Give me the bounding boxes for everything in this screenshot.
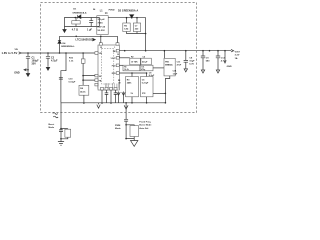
ferrite bead FB1 box bbox=[163, 51, 165, 59]
svg-text:10 TDK: 10 TDK bbox=[131, 62, 138, 64]
labels right of FB1 bbox=[173, 61, 182, 75]
svg-text:BMB2A: BMB2A bbox=[165, 64, 173, 67]
node junction R4 branch bbox=[82, 52, 84, 54]
wire FB1 bottom to bus bbox=[165, 76, 169, 103]
node junction D4 branch bbox=[59, 52, 61, 54]
pwm mode switch (bottom middle) bbox=[125, 103, 127, 120]
resistor R2 box bbox=[119, 57, 130, 59]
capacitor C3 bbox=[89, 18, 93, 27]
svg-text:1%: 1% bbox=[131, 93, 134, 95]
wire PVDD top rail bbox=[108, 18, 145, 34]
capacitor C2 bbox=[46, 53, 50, 67]
inductor L1 box bbox=[97, 16, 108, 35]
svg-text:GND: GND bbox=[14, 72, 20, 75]
terminal arrow VOUT bbox=[231, 50, 234, 52]
svg-text:0.01µF: 0.01µF bbox=[69, 82, 77, 84]
wire vertical to upper rail bbox=[59, 36, 61, 53]
svg-text:28: 28 bbox=[117, 54, 119, 56]
svg-text:SW: SW bbox=[113, 51, 116, 53]
svg-text:Mode: Mode bbox=[49, 127, 55, 129]
capacitor C7 bbox=[136, 18, 138, 23]
arrow stubs to bus bbox=[117, 92, 120, 104]
resistor box branch bbox=[61, 129, 68, 139]
terminal arrow VIN bbox=[19, 52, 21, 54]
node junction C2 bbox=[47, 52, 49, 54]
pin boxes bottom bbox=[101, 87, 104, 90]
pin boxes right bbox=[116, 49, 119, 52]
svg-text:Mode: Mode bbox=[115, 128, 121, 130]
ground under C1 bbox=[26, 70, 29, 77]
svg-text:Burst Mode: Burst Mode bbox=[139, 124, 152, 127]
IC U1 body bbox=[98, 45, 119, 90]
diode D1 on top edge bbox=[78, 15, 81, 19]
resistor R10 branch bbox=[61, 53, 66, 103]
svg-text:45.3k: 45.3k bbox=[80, 90, 86, 93]
svg-text:1 µF: 1 µF bbox=[87, 28, 93, 31]
svg-text:Fixed Freq.: Fixed Freq. bbox=[139, 121, 151, 124]
wire output rail bbox=[119, 50, 231, 52]
svg-text:GND: GND bbox=[227, 66, 232, 68]
arrow on wire bbox=[124, 105, 128, 109]
resistor R6 bbox=[126, 18, 128, 23]
ground triangle bottom middle bbox=[131, 139, 138, 147]
svg-text:C13: C13 bbox=[177, 61, 181, 63]
svg-text:PVDD: PVDD bbox=[109, 9, 115, 11]
svg-text:3.3 µH: 3.3 µH bbox=[98, 19, 105, 21]
label U1 part number bbox=[76, 39, 93, 42]
node junction C1 bbox=[27, 52, 29, 54]
capacitor C12 bbox=[217, 50, 219, 52]
ground bus wire bbox=[61, 102, 165, 104]
ground under C9 bbox=[201, 70, 204, 73]
svg-text:D2 GREEN5DA-A: D2 GREEN5DA-A bbox=[118, 9, 139, 12]
svg-text:47nF: 47nF bbox=[177, 63, 182, 66]
svg-text:PWM: PWM bbox=[115, 125, 120, 127]
svg-text:25: 25 bbox=[100, 47, 102, 49]
resistor box branch bbox=[126, 125, 134, 139]
svg-text:0.21µF: 0.21µF bbox=[142, 83, 149, 85]
svg-text:4.7 Ω: 4.7 Ω bbox=[72, 28, 78, 31]
node junction GND stub bbox=[27, 69, 29, 71]
ground bottom left bbox=[58, 142, 64, 146]
burst mode jumper (bottom left) bbox=[60, 103, 62, 130]
ground arrow under U1 bbox=[97, 103, 100, 108]
capacitor C5 box bbox=[141, 77, 154, 97]
node junction R10 branch bbox=[65, 52, 67, 54]
diode D4 bbox=[58, 41, 61, 44]
resistor R5 / capacitor C11 box bbox=[119, 64, 123, 66]
svg-text:470p: 470p bbox=[141, 68, 145, 71]
snubber loop box top-left bbox=[65, 18, 100, 27]
svg-text:4.7µF: 4.7µF bbox=[51, 60, 58, 63]
svg-text:10.0k: 10.0k bbox=[124, 69, 129, 71]
svg-text:6.3V: 6.3V bbox=[189, 64, 194, 66]
capacitor C1 bbox=[26, 53, 30, 70]
capacitor in branch bbox=[124, 119, 128, 138]
pin name ticks inside U1 bottom bbox=[98, 83, 118, 88]
pin box left VIN bbox=[95, 52, 98, 55]
node VIN input label bbox=[2, 49, 19, 55]
svg-text:VOUT: VOUT bbox=[235, 51, 241, 53]
svg-text:8.2µF: 8.2µF bbox=[149, 75, 155, 77]
capacitor C9 bbox=[202, 50, 204, 52]
svg-text:Burst: Burst bbox=[49, 123, 55, 126]
pin boxes left lower bbox=[95, 74, 98, 77]
svg-text:10µF: 10µF bbox=[189, 61, 195, 63]
capacitor C8 bbox=[185, 50, 187, 52]
capacitor in branch bbox=[59, 130, 63, 142]
svg-text:XLF-50: XLF-50 bbox=[98, 26, 106, 28]
node junction upper rail bbox=[100, 36, 102, 38]
squiggle marks bbox=[53, 113, 58, 115]
svg-text:4Ω µF: 4Ω µF bbox=[142, 61, 148, 64]
svg-text:12Ω: 12Ω bbox=[124, 29, 128, 31]
svg-text:249k: 249k bbox=[127, 82, 133, 85]
svg-text:1.8V to 5.5V: 1.8V to 5.5V bbox=[2, 51, 18, 55]
diode D2 bbox=[130, 15, 134, 18]
wire VIN rail bbox=[21, 52, 95, 54]
pin label R8 bbox=[118, 80, 121, 84]
resistor R1 bbox=[75, 18, 77, 27]
svg-text:GREEN5DA-A: GREEN5DA-A bbox=[72, 12, 87, 15]
capacitor stubs under U1 bbox=[101, 90, 103, 103]
svg-text:12µF: 12µF bbox=[173, 73, 178, 75]
svg-text:50-332: 50-332 bbox=[98, 30, 106, 32]
ground under C4 bbox=[184, 69, 187, 72]
ground under C12 bbox=[216, 70, 219, 73]
wire to GND terminal bbox=[24, 69, 28, 71]
svg-text:LTC3106EUDC: LTC3106EUDC bbox=[76, 39, 93, 42]
wires lower-left pins bbox=[83, 76, 95, 81]
pin boxes top bbox=[99, 43, 102, 46]
capacitor C4 box bbox=[141, 58, 151, 65]
wire R4 branch bbox=[82, 53, 84, 59]
dashed demo-board border bbox=[41, 3, 197, 113]
svg-text:1A: 1A bbox=[235, 57, 238, 60]
pin labels inside U1 bbox=[99, 47, 121, 83]
capacitor C10 bbox=[59, 77, 63, 79]
ground under C2 bbox=[46, 67, 49, 70]
svg-text:Auto Sel.: Auto Sel. bbox=[139, 127, 149, 130]
node junctions snubber2 bbox=[126, 17, 128, 19]
svg-text:GREEN5DA-L: GREEN5DA-L bbox=[61, 45, 75, 48]
svg-text:3.3V: 3.3V bbox=[235, 55, 240, 57]
wire upper rail to IC top pins bbox=[60, 36, 118, 42]
svg-text:35V: 35V bbox=[32, 62, 37, 65]
ground under loop left corner bbox=[63, 27, 66, 33]
svg-text:7565: 7565 bbox=[98, 23, 104, 25]
resistor R4 box bbox=[79, 85, 89, 95]
resistor R3 box bbox=[126, 77, 139, 97]
terminal GND right bbox=[224, 50, 226, 52]
svg-text:1: 1 bbox=[114, 47, 115, 49]
wire snubber2 bottoms to output rail bbox=[127, 32, 146, 51]
